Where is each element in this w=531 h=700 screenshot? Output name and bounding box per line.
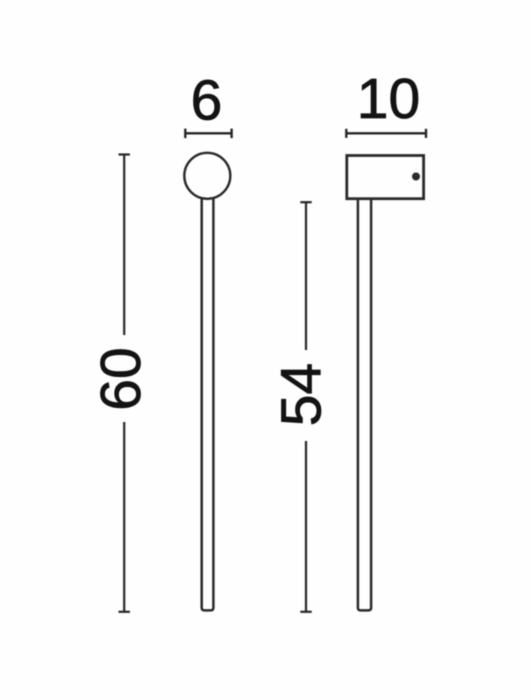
dimension line 60 (vertical with gap for text) <box>119 155 130 612</box>
svg-text:10: 10 <box>357 67 420 131</box>
rod (left view tube) <box>202 190 214 610</box>
rod (right view tube) <box>358 195 371 610</box>
ball (sphere head of left view) <box>184 153 230 199</box>
dimension line 10 (horizontal with end ticks) <box>346 129 426 138</box>
mounting bracket (right view box) <box>347 156 424 199</box>
dimension line 6 (horizontal with end ticks) <box>185 129 231 139</box>
svg-text:60: 60 <box>89 347 153 410</box>
dimension line 54 (vertical with gap for text) <box>300 202 311 612</box>
svg-text:6: 6 <box>191 68 223 132</box>
screw dot inside bracket <box>412 173 420 181</box>
svg-text:54: 54 <box>270 363 334 426</box>
